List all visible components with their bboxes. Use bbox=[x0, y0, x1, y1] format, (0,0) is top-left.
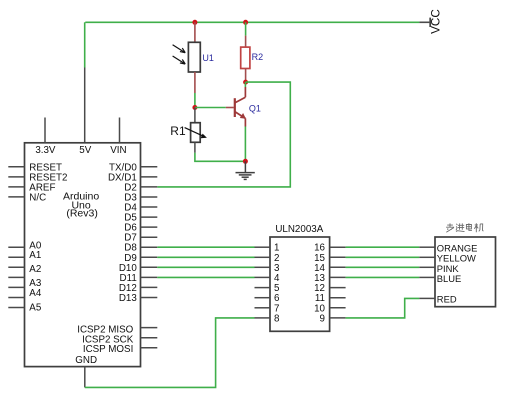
svg-text:3.3V: 3.3V bbox=[35, 145, 56, 156]
wire D9 to ULN2 bbox=[157, 256, 254, 258]
svg-text:ULN2003A: ULN2003A bbox=[275, 224, 323, 235]
wire U1 bottom lead bbox=[194, 72, 196, 93]
wire ULN13 to BLUE bbox=[346, 276, 420, 278]
potentiometer R1 bbox=[185, 123, 207, 143]
pin YELLOW leg bbox=[419, 256, 435, 258]
wire U1 to base node bbox=[194, 93, 196, 108]
wire R1 to ground net bbox=[195, 153, 246, 162]
pin D2 bbox=[141, 186, 158, 188]
svg-text:U1: U1 bbox=[202, 53, 214, 63]
char 进 bbox=[456, 223, 465, 231]
svg-text:RED: RED bbox=[437, 293, 457, 304]
wire R1 bottom lead bbox=[194, 142, 196, 153]
pin 3.3V leg bbox=[44, 118, 46, 143]
pin A5 bbox=[8, 297, 24, 299]
pin A1 bbox=[8, 256, 24, 258]
pin D6 bbox=[141, 226, 158, 228]
pin PINK leg bbox=[419, 266, 435, 268]
wire base lead maroon bbox=[226, 107, 234, 109]
wire R1 top lead bbox=[194, 108, 196, 123]
node U1-VCC junction bbox=[192, 20, 197, 25]
wire VCC symbol lead bbox=[419, 21, 429, 23]
pin ORANGE leg bbox=[419, 246, 435, 248]
wire ULN14 to PINK bbox=[346, 266, 420, 268]
svg-text:A2: A2 bbox=[29, 264, 41, 275]
pin D11 bbox=[141, 276, 158, 278]
pin D12 bbox=[141, 286, 158, 288]
svg-text:VCC: VCC bbox=[430, 9, 443, 34]
char 步 bbox=[446, 223, 454, 232]
pin ULN 10 bbox=[330, 307, 346, 309]
pin D9 bbox=[141, 256, 158, 258]
pin A6 bbox=[8, 307, 24, 309]
svg-text:A5: A5 bbox=[29, 303, 42, 314]
pin 5V leg bbox=[84, 68, 86, 144]
pin RED leg bbox=[419, 297, 435, 299]
pin ULN 14 bbox=[330, 266, 346, 268]
node base junction bbox=[192, 105, 197, 110]
pin VIN leg bbox=[119, 118, 121, 143]
svg-text:VIN: VIN bbox=[110, 145, 126, 156]
svg-text:D13: D13 bbox=[119, 293, 138, 304]
pin ULN 2 bbox=[255, 256, 271, 258]
ground bbox=[236, 161, 255, 179]
photoresistor U1 bbox=[173, 42, 201, 72]
pin ULN 3 bbox=[255, 266, 271, 268]
char 电 bbox=[466, 223, 472, 230]
pin ULN 6 bbox=[255, 297, 271, 299]
pin ULN 1 bbox=[255, 246, 271, 248]
pin RESET2 bbox=[8, 176, 24, 178]
wire GND to ULN pin8 bbox=[85, 318, 255, 388]
wire D10 to ULN3 bbox=[157, 266, 254, 268]
pin ULN 12 bbox=[330, 287, 346, 289]
svg-text:GND: GND bbox=[75, 355, 97, 366]
wire 5V drop bbox=[84, 22, 86, 67]
stepper motor M1 box bbox=[435, 237, 496, 307]
pin BLUE leg bbox=[419, 276, 435, 278]
power symbol VCC bbox=[430, 9, 443, 34]
pin D7 bbox=[141, 236, 158, 238]
pin ULN 16 bbox=[330, 246, 346, 248]
pin N/C bbox=[8, 196, 24, 198]
pin ULN 9 bbox=[330, 317, 346, 319]
pin ULN 11 bbox=[330, 297, 346, 299]
pin ULN 8 bbox=[255, 317, 271, 319]
pin D8 bbox=[141, 246, 158, 248]
svg-text:5V: 5V bbox=[79, 145, 91, 156]
pin ULN 15 bbox=[330, 256, 346, 258]
wire ULN15 to YELLOW bbox=[346, 256, 420, 258]
pin TX/D0 bbox=[141, 166, 158, 168]
wire R2 top lead bbox=[245, 36, 247, 48]
pin RESET bbox=[8, 166, 24, 168]
pin D10 bbox=[141, 266, 158, 268]
IC U3 ULN2003A box bbox=[270, 237, 330, 331]
pin A2 bbox=[8, 266, 24, 268]
svg-text:R2: R2 bbox=[252, 52, 264, 62]
wire base net green bbox=[195, 107, 226, 109]
wire R2 top green bbox=[245, 22, 247, 35]
resistor R2 bbox=[241, 47, 250, 68]
pin A4 bbox=[8, 286, 24, 288]
pin ICSP2 SCK bbox=[141, 337, 158, 339]
label Arduino Uno (Rev3) bbox=[63, 191, 99, 220]
pin ULN 5 bbox=[255, 287, 271, 289]
wire ULN9 to RED bbox=[346, 298, 420, 318]
pin ULN 4 bbox=[255, 276, 271, 278]
pin ICSP2 MISO bbox=[141, 327, 158, 329]
node collector junction bbox=[243, 80, 248, 85]
svg-text:A4: A4 bbox=[29, 288, 42, 299]
svg-text:(Rev3): (Rev3) bbox=[66, 208, 98, 220]
node R2-VCC junction bbox=[243, 20, 248, 25]
svg-text:BLUE: BLUE bbox=[437, 273, 462, 284]
wire VCC rail bbox=[85, 21, 419, 23]
pin GND leg bbox=[84, 367, 86, 388]
label stepper title 步进电机 (drawn strokes) bbox=[446, 223, 483, 232]
pin A0 bbox=[8, 246, 24, 248]
wire D11 to ULN4 bbox=[157, 276, 254, 278]
transistor Q1 bbox=[235, 82, 246, 126]
pin AREF bbox=[8, 186, 24, 188]
node ground junction bbox=[243, 159, 248, 164]
pin D4 bbox=[141, 206, 158, 208]
wire emitter to ground bbox=[244, 127, 246, 162]
svg-text:N/C: N/C bbox=[29, 192, 46, 203]
pin ULN 13 bbox=[330, 276, 346, 278]
wire R2 bottom lead bbox=[245, 69, 247, 83]
wire U1 top lead bbox=[194, 22, 196, 42]
wire ULN16 to ORANGE bbox=[346, 246, 420, 248]
svg-text:R1: R1 bbox=[170, 124, 186, 138]
wire D2 net bbox=[157, 82, 290, 187]
svg-text:ICSP MOSI: ICSP MOSI bbox=[83, 344, 133, 355]
pin ICSP MOSI bbox=[141, 347, 158, 349]
svg-text:9: 9 bbox=[320, 313, 325, 324]
pin D3 bbox=[141, 196, 158, 198]
pin D13 bbox=[141, 297, 158, 299]
svg-text:Q1: Q1 bbox=[249, 103, 261, 113]
Arduino U2 box bbox=[25, 143, 141, 367]
char 机 bbox=[474, 223, 483, 232]
svg-text:8: 8 bbox=[274, 313, 280, 324]
pin DX/D1 bbox=[141, 176, 158, 178]
svg-text:A1: A1 bbox=[29, 250, 41, 261]
pin D5 bbox=[141, 216, 158, 218]
wire D8 to ULN1 bbox=[157, 246, 254, 248]
pin ULN 7 bbox=[255, 307, 271, 309]
pin A3 bbox=[8, 276, 24, 278]
